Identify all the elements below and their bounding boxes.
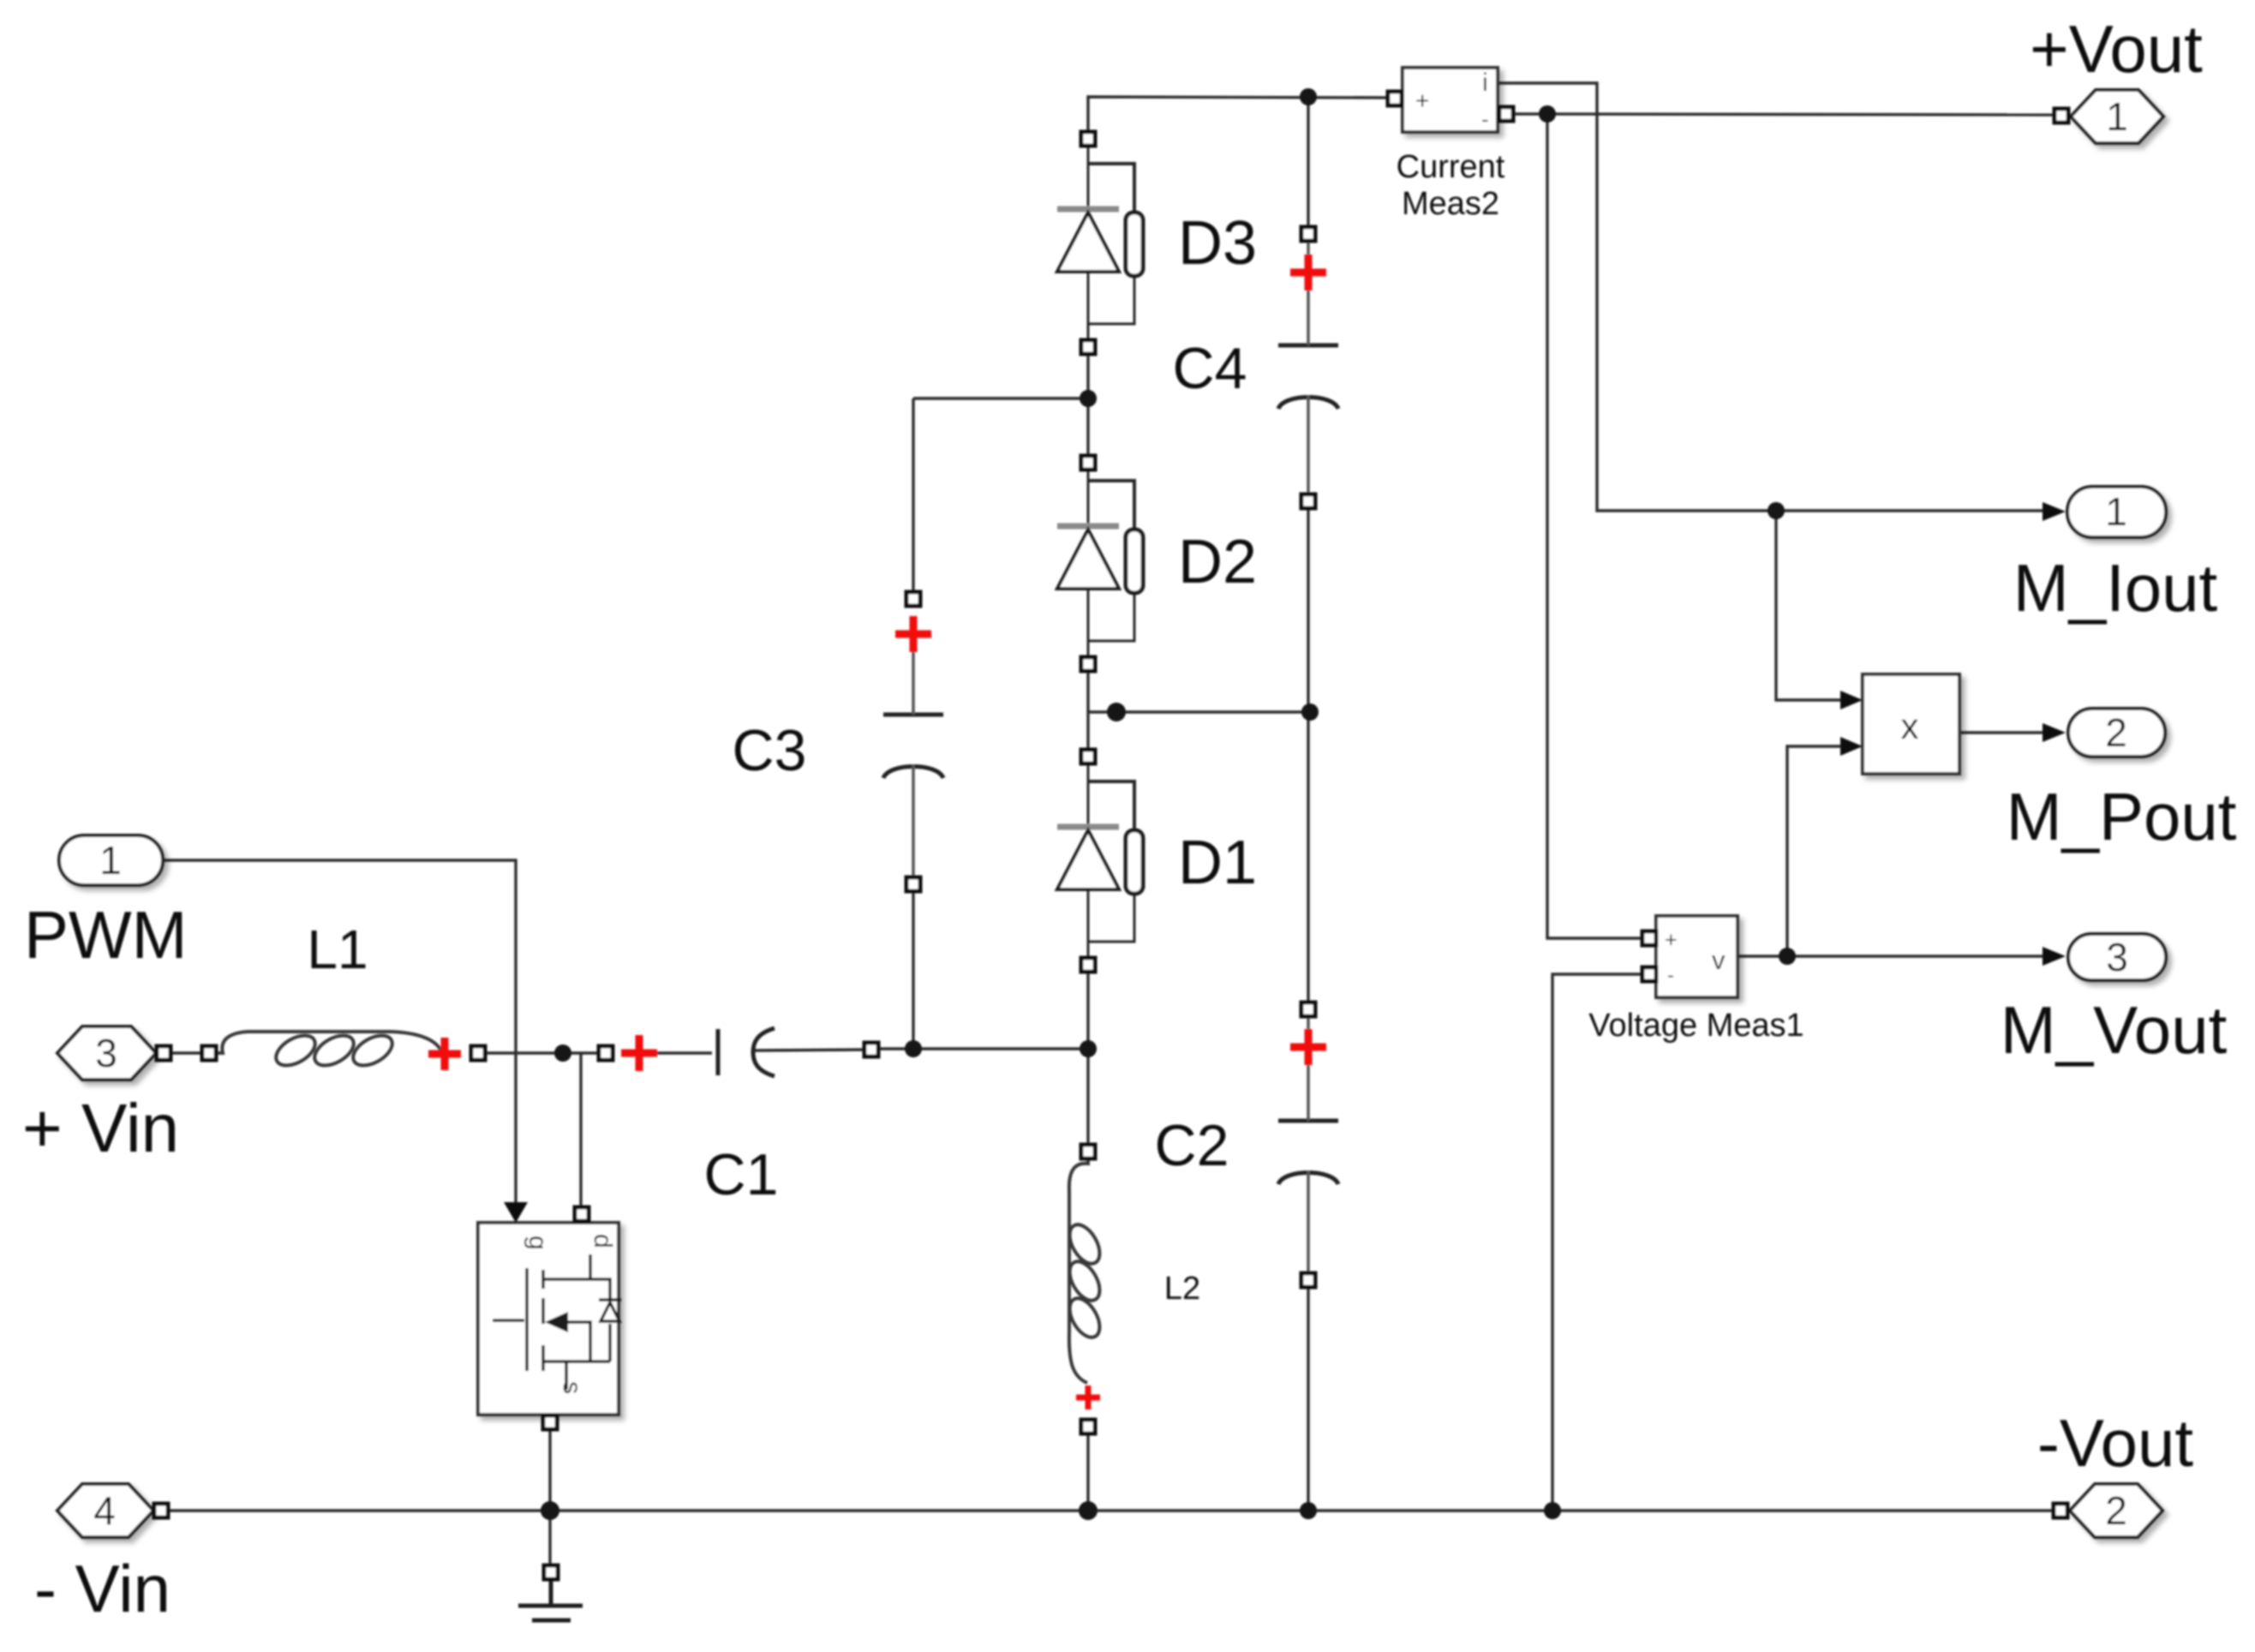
wire bottom rail to ground <box>548 1511 551 1565</box>
wire rail A junction down to L2 top <box>1086 1049 1089 1145</box>
svg-text:M_Iout: M_Iout <box>2013 550 2218 625</box>
node bottom rail / C2 <box>1300 1502 1317 1519</box>
label D2 <box>1178 528 1257 596</box>
capacitor C3 <box>883 641 943 877</box>
port square Current Meas2 + <box>1388 92 1402 105</box>
MOSFET Q1 block <box>478 1223 619 1415</box>
port square C1 right <box>864 1043 878 1056</box>
wire L2 bottom to bottom rail <box>1086 1434 1089 1511</box>
svg-text:i: i <box>1482 69 1488 97</box>
wire C2 bottom to bottom rail <box>1307 1287 1309 1511</box>
svg-text:C2: C2 <box>1155 1113 1229 1178</box>
label PWM <box>24 897 188 973</box>
svg-text:- Vin: - Vin <box>34 1551 170 1626</box>
outport M_Pout (2) <box>2068 709 2165 757</box>
port square L2 top <box>1081 1145 1095 1158</box>
svg-text:D3: D3 <box>1178 209 1257 278</box>
port square C2 top <box>1301 1003 1315 1016</box>
port square D1 bottom <box>1081 958 1095 972</box>
capacitor C4 <box>1278 241 1338 494</box>
outport M_Iout (1) <box>2067 487 2166 537</box>
wire MOSFET source to bottom rail <box>548 1429 551 1511</box>
connection port -Vout (2) <box>2070 1484 2162 1537</box>
connection port +Vin (3) <box>57 1027 156 1080</box>
svg-text:-Vout: -Vout <box>2037 1405 2193 1481</box>
label C4 <box>1173 336 1247 401</box>
svg-text:1: 1 <box>99 838 122 883</box>
port square +Vin <box>157 1046 170 1060</box>
Voltage Meas1 + label <box>1665 928 1678 952</box>
Voltage Meas1 - label <box>1667 964 1674 987</box>
svg-text:x: x <box>1901 706 1919 746</box>
node bottom rail / MOSFET source / ground <box>541 1501 559 1520</box>
svg-text:3: 3 <box>2106 935 2128 979</box>
node mid junction left dot <box>1107 703 1126 721</box>
Current Meas2 - label <box>1481 106 1489 132</box>
node bottom rail / L2 <box>1079 1501 1098 1520</box>
MOSFET pin label s <box>558 1381 586 1394</box>
polarity mark red + of C4 <box>1290 254 1326 290</box>
connection port -Vin (4) <box>57 1484 153 1537</box>
node L1 / C1 / drain junction <box>554 1044 571 1062</box>
voltage measurement block Voltage Meas1 <box>1656 916 1738 997</box>
port square -Vin <box>154 1504 168 1517</box>
MOSFET pin label g <box>523 1236 552 1250</box>
label C2 <box>1155 1113 1229 1178</box>
node +Vout / V-meas branch <box>1539 105 1556 123</box>
port square C1 left <box>599 1046 613 1060</box>
label -Vout <box>2037 1405 2193 1481</box>
svg-text:Current: Current <box>1397 149 1505 185</box>
capacitor C2 <box>1278 1016 1338 1272</box>
svg-text:L2: L2 <box>1164 1271 1200 1307</box>
wire PWM to MOSFET gate <box>163 860 516 1203</box>
wire C4-node to rail A junction <box>913 397 1088 399</box>
port square C4 top <box>1301 227 1315 241</box>
arrowhead product input 2 <box>1840 737 1863 756</box>
port square C2 bottom <box>1301 1273 1315 1287</box>
arrowhead into M_Pout <box>2043 723 2066 742</box>
label - Vin <box>34 1551 170 1626</box>
port square D1 top <box>1081 750 1095 763</box>
label D1 <box>1178 829 1257 897</box>
diode D3 <box>1057 146 1143 341</box>
label C3 <box>733 718 807 783</box>
MOSFET pin label d <box>589 1234 617 1248</box>
label D3 <box>1178 209 1257 278</box>
port square MOSFET drain <box>575 1207 589 1221</box>
svg-text:M_Pout: M_Pout <box>2007 779 2237 854</box>
svg-text:C4: C4 <box>1173 336 1247 401</box>
port square Current Meas2 - <box>1499 107 1513 121</box>
port square +Vout <box>2055 109 2068 123</box>
label + Vin <box>22 1090 179 1166</box>
svg-text:L1: L1 <box>307 919 368 980</box>
svg-text:-: - <box>1667 964 1674 987</box>
node C3/C1/rail-A junction left <box>905 1040 922 1057</box>
svg-text:M_Vout: M_Vout <box>2001 992 2228 1068</box>
MOSFET channel arrow <box>545 1312 568 1332</box>
svg-text:C3: C3 <box>733 718 807 783</box>
port square C4 bottom <box>1301 494 1315 508</box>
label M_Pout <box>2007 779 2237 854</box>
wire C4-node down to C3 top <box>912 398 914 592</box>
svg-text:+ Vin: + Vin <box>22 1090 179 1166</box>
label Current Meas2 <box>1397 149 1505 222</box>
connection port +Vout (1) <box>2071 90 2163 143</box>
svg-text:2: 2 <box>2105 1488 2127 1533</box>
port square ground <box>544 1565 558 1579</box>
port square Voltage Meas1 - <box>1642 967 1656 981</box>
port square Voltage Meas1 + <box>1642 931 1656 945</box>
svg-text:-: - <box>1481 106 1489 132</box>
wire C1 right port to rail A junction <box>878 1047 1088 1050</box>
svg-text:+Vout: +Vout <box>2030 11 2203 87</box>
wire mid junction down to C2 top <box>1307 712 1309 1003</box>
node M_Vout branch <box>1779 948 1796 965</box>
node rail A / C1 junction <box>1080 1040 1097 1057</box>
polarity mark red + of C3 <box>895 616 931 652</box>
product block <box>1863 674 1959 774</box>
wire +Vout rail down to Voltage Meas1 + input <box>1547 114 1642 938</box>
svg-text:v: v <box>1712 945 1726 975</box>
wire C3 bottom to C1 junction <box>912 891 914 1049</box>
port square D3 top <box>1081 132 1095 146</box>
port square L2 bottom <box>1081 1420 1095 1434</box>
product x label <box>1901 706 1919 746</box>
wire rail A segment D2 bottom to D1 top <box>1086 671 1089 750</box>
diode D1 <box>1057 763 1143 959</box>
label C1 <box>704 1142 779 1207</box>
wire product output to M_Pout <box>1959 731 2043 733</box>
port square D3 bottom <box>1081 340 1095 354</box>
svg-text:D2: D2 <box>1178 528 1257 596</box>
wire node branch to product input 1 <box>1776 511 1844 700</box>
port square D2 bottom <box>1081 657 1095 671</box>
svg-text:2: 2 <box>2105 710 2127 755</box>
node bottom rail / V-meas minus <box>1544 1502 1561 1519</box>
inductor L2 <box>1063 1153 1105 1383</box>
wire C1 plate to right port <box>646 1050 864 1053</box>
polarity mark red + of L1 <box>428 1038 461 1070</box>
svg-text:+: + <box>1415 87 1429 114</box>
svg-text:+: + <box>1665 928 1678 952</box>
polarity mark red + of L2 <box>1076 1386 1100 1410</box>
wire L1 right to C1 left with MOSFET drain branch <box>485 1053 599 1206</box>
MOSFET internal symbol <box>493 1254 610 1390</box>
wire C4 bottom to mid junction <box>1307 508 1309 712</box>
MOSFET body diode <box>599 1300 621 1321</box>
wire mid junction horizontal <box>1088 710 1310 713</box>
port square L1 left <box>202 1046 216 1060</box>
svg-text:C1: C1 <box>704 1142 779 1207</box>
port square L1 right <box>471 1046 485 1060</box>
port square -Vout <box>2054 1504 2067 1517</box>
capacitor C1 <box>718 1028 775 1076</box>
label L1 <box>307 919 368 980</box>
outport M_Vout (3) <box>2068 934 2166 980</box>
wire bottom rail -Vin to -Vout <box>169 1509 2055 1511</box>
wire rail A segment D1 bottom to junction <box>1086 972 1089 1049</box>
svg-text:1: 1 <box>2105 489 2127 534</box>
svg-text:g: g <box>523 1236 552 1250</box>
port square MOSFET source <box>543 1416 557 1429</box>
arrowhead into M_Vout <box>2043 947 2066 966</box>
wire Voltage Meas1 output to M_Vout <box>1739 955 2043 957</box>
svg-text:3: 3 <box>95 1031 117 1075</box>
node mid junction rail B <box>1301 703 1319 721</box>
label Voltage Meas1 <box>1588 1008 1803 1044</box>
ground symbol <box>518 1581 583 1620</box>
current measurement block Current Meas2 <box>1403 68 1498 132</box>
wire Voltage Meas1 - input down to bottom rail <box>1552 974 1642 1511</box>
node C4 branch on rail A <box>1080 390 1097 407</box>
inport PWM (1) <box>59 835 163 885</box>
svg-text:Meas2: Meas2 <box>1402 186 1499 222</box>
wire Current Meas2 signal i to M_Iout <box>1498 83 2043 511</box>
wire Current Meas2 output to +Vout <box>1513 114 2055 115</box>
svg-text:D1: D1 <box>1178 829 1257 897</box>
port square D2 top <box>1081 456 1095 470</box>
polarity mark red + of C1 <box>621 1035 657 1071</box>
wire top rail from D3 anode-top to Current Meas2 + input <box>1088 97 1388 133</box>
polarity mark red + of C2 <box>1290 1029 1326 1065</box>
diode D2 <box>1057 470 1143 658</box>
svg-text:d: d <box>589 1234 617 1248</box>
arrowhead product input 1 <box>1840 691 1863 709</box>
svg-text:s: s <box>558 1381 586 1394</box>
wire +Vin port to L1 left <box>170 1051 202 1054</box>
svg-text:4: 4 <box>93 1488 116 1533</box>
wire node branch up to product input 2 <box>1787 746 1844 956</box>
gate arrowhead into MOSFET <box>504 1202 528 1223</box>
node rail-B top junction <box>1300 88 1317 105</box>
port square C3 bottom <box>906 877 920 891</box>
wire rail A segment D3 bottom to D2 top <box>1086 354 1089 456</box>
label L2 <box>1164 1271 1200 1307</box>
node M_Iout branch <box>1768 502 1785 519</box>
port square C3 top <box>906 592 920 606</box>
Current Meas2 + label <box>1415 87 1429 114</box>
arrowhead into M_Iout <box>2043 502 2066 521</box>
inductor L1 <box>216 1029 442 1071</box>
svg-text:PWM: PWM <box>24 897 188 973</box>
svg-text:Voltage Meas1: Voltage Meas1 <box>1588 1008 1803 1044</box>
label M_Iout <box>2013 550 2218 625</box>
label M_Vout <box>2001 992 2228 1068</box>
Voltage Meas1 v label <box>1712 945 1726 975</box>
Current Meas2 i label <box>1482 69 1488 97</box>
wire C4 top junction to rail B <box>1307 97 1309 227</box>
svg-text:1: 1 <box>2106 94 2128 139</box>
label +Vout <box>2030 11 2203 87</box>
